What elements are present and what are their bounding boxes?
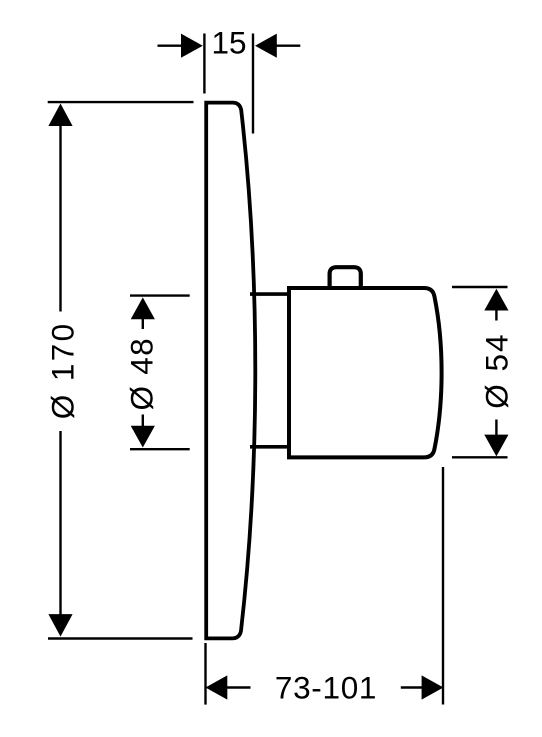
dim 48: bottom extension line (130, 448, 190, 450)
dim 170: lower dimension line (59, 431, 61, 626)
escutcheon plate (side view) (206, 103, 255, 639)
svg-text:Ø 48: Ø 48 (123, 337, 159, 411)
dim 54: lower stub line (495, 420, 497, 441)
svg-text:15: 15 (211, 25, 246, 61)
dim 15: left tail line (158, 45, 183, 47)
dim 170: bottom extension line (48, 637, 193, 639)
sleeve stem top line (250, 292, 291, 296)
dim 48: upper stub line (142, 308, 144, 329)
dim 48: top extension line (130, 294, 190, 296)
dim 54: up arrowhead (484, 289, 508, 311)
dim 73-101: left tail line (227, 686, 251, 688)
dim 15: right tail line (276, 45, 301, 47)
dim 170: up arrowhead (48, 104, 72, 127)
dim 54: bottom extension line (452, 456, 508, 458)
sleeve stem bottom line (250, 445, 291, 449)
dim 73-101: left extension line (204, 643, 206, 705)
svg-text:Ø 54: Ø 54 (478, 332, 514, 408)
dim 73-101: right tail line (401, 686, 423, 688)
dim 15: right arrowhead (255, 34, 277, 58)
dim 170: upper dimension line (59, 115, 61, 312)
dim 54: upper stub line (495, 300, 497, 321)
svg-text:Ø 170: Ø 170 (44, 321, 80, 419)
dim 73-101: right extension line (442, 467, 444, 705)
dim 15: right extension line (252, 34, 254, 134)
dim 48: lower stub line (142, 415, 144, 431)
svg-text:73-101: 73-101 (275, 669, 377, 705)
dim 15: left arrowhead (181, 34, 203, 58)
dim 170: top extension line (48, 101, 194, 103)
thermostat handle knob (289, 288, 442, 457)
dim 54: top extension line (452, 286, 508, 288)
dim 54: down arrowhead (484, 435, 508, 457)
dim 170: down arrowhead (48, 614, 72, 637)
dim 73-101: right arrowhead (422, 675, 444, 699)
button on knob top (330, 267, 361, 289)
dim 15: left extension line (203, 34, 205, 94)
dim 73-101: left arrowhead (206, 675, 228, 699)
dim 48: down arrowhead (131, 426, 155, 448)
dim 48: up arrowhead (131, 297, 155, 319)
